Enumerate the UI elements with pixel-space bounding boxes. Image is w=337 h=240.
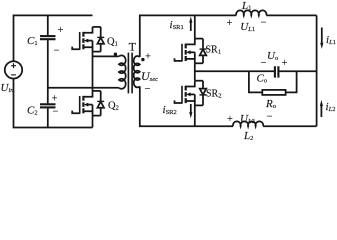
wire SR node (SR1 source to SR2 drain) bbox=[194, 63, 196, 80]
inductor L2 bbox=[233, 121, 263, 126]
wire top-left rail bbox=[14, 15, 93, 61]
wire middle output wire bbox=[195, 70, 317, 72]
svg-text:+: + bbox=[58, 25, 64, 36]
wire left vertical below source bbox=[14, 79, 93, 128]
wire load loop bbox=[249, 71, 297, 92]
capacitor C1 bbox=[40, 36, 56, 39]
svg-text:−: − bbox=[53, 107, 59, 118]
svg-text:−: − bbox=[54, 46, 60, 57]
inductor L1 bbox=[236, 10, 266, 15]
wire C1/C2 branch bbox=[47, 15, 49, 127]
wire bottom rail right of L2 bbox=[263, 125, 317, 127]
voltage source Uin bbox=[5, 61, 22, 78]
arrow iL2 bbox=[320, 105, 322, 117]
svg-text:−: − bbox=[145, 84, 151, 95]
wire SR2 source to bottom rail bbox=[194, 105, 196, 126]
wire SR1 drain to top rail bbox=[194, 15, 196, 38]
transformer T primary winding bbox=[119, 55, 126, 88]
resistor Ro bbox=[262, 90, 285, 95]
transistor SR1 bbox=[175, 39, 207, 64]
transistor Q2 bbox=[72, 91, 104, 116]
transformer T secondary winding bbox=[134, 56, 140, 87]
wire primary top lead bbox=[93, 55, 119, 57]
wire node B (Q1 source to Q2 drain) bbox=[92, 52, 94, 91]
svg-text:+: + bbox=[52, 94, 58, 105]
wire Q2 source to bottom rail bbox=[92, 116, 94, 128]
svg-text:+: + bbox=[227, 114, 233, 125]
wire right rail bbox=[316, 15, 318, 126]
capacitor Co bbox=[275, 66, 279, 77]
svg-text:−: − bbox=[267, 112, 273, 123]
node primary polarity dot bbox=[114, 53, 117, 56]
wire secondary top lead / top-right rail bbox=[140, 15, 237, 57]
wire top rail right of L1 bbox=[266, 14, 316, 16]
transformer core bbox=[128, 53, 132, 94]
node secondary polarity dot bbox=[141, 58, 144, 61]
capacitor C2 bbox=[40, 104, 56, 107]
svg-text:−: − bbox=[261, 17, 267, 28]
arrow iSR1 bbox=[190, 22, 192, 32]
transistor Q1 bbox=[72, 27, 104, 52]
svg-text:T: T bbox=[129, 40, 137, 54]
svg-text:+: + bbox=[227, 18, 233, 29]
svg-text:+: + bbox=[282, 58, 288, 69]
arrow iSR2 bbox=[190, 104, 192, 113]
svg-text:+: + bbox=[145, 52, 151, 63]
wire node A (C midpoint to primary bottom) bbox=[48, 87, 119, 89]
wire secondary bottom lead / bottom-right rail bbox=[140, 86, 233, 126]
transistor SR2 bbox=[175, 81, 207, 106]
arrow iL1 bbox=[321, 28, 323, 44]
svg-text:−: − bbox=[261, 58, 267, 69]
